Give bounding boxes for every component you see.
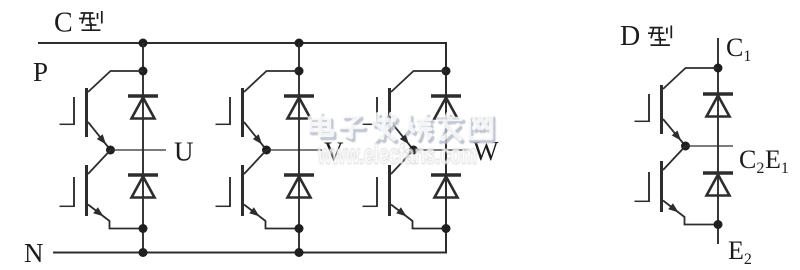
svg-text:www.elecfans.com: www.elecfans.com <box>317 139 477 170</box>
diode D2 <box>128 175 158 198</box>
junction Q1 collector <box>139 67 148 76</box>
junction V leg top (P rail) <box>295 39 304 48</box>
diode D1 <box>128 96 158 119</box>
wire node U stub <box>111 149 167 151</box>
node U junction <box>106 146 115 155</box>
junction Q5 collector <box>442 67 451 76</box>
wire node W stub <box>414 149 470 151</box>
svg-text:U: U <box>174 137 194 167</box>
wire node V stub <box>267 149 323 151</box>
diode D6 <box>431 175 461 198</box>
junction U leg top (P rail) <box>139 39 148 48</box>
junction U leg bottom (N rail) <box>139 248 148 257</box>
junction Q7 collector (C1) <box>714 64 723 73</box>
junction Q6 emitter <box>442 224 451 233</box>
wire P rail / leg W branch / N rail <box>38 43 446 253</box>
label 型 (C title hanzi) <box>79 11 102 30</box>
svg-text:D: D <box>620 21 640 52</box>
transistor Q4 (IGBT) <box>216 150 300 229</box>
transistor Q1 (IGBT) <box>60 71 144 150</box>
node C2E1 junction <box>681 142 690 151</box>
wire D module main branch C1-E2 <box>717 38 719 244</box>
diode D5 <box>431 96 461 119</box>
diode D3 <box>284 96 314 119</box>
wire node C2E1 stub <box>686 145 734 147</box>
transistor Q7 (IGBT) <box>635 68 719 146</box>
svg-text:N: N <box>24 238 44 268</box>
label 型 (D title hanzi) <box>648 26 671 46</box>
node V junction <box>262 146 271 155</box>
diode D7 <box>703 94 733 117</box>
wire W leg diode branch <box>445 43 447 253</box>
node W junction <box>409 146 418 155</box>
diode D4 <box>284 175 314 198</box>
svg-text:P: P <box>33 57 48 87</box>
wire U leg diode branch <box>142 43 144 253</box>
junction Q4 emitter <box>295 224 304 233</box>
transistor Q6 (IGBT) <box>363 150 447 229</box>
transistor Q2 (IGBT) <box>60 150 144 229</box>
wire V leg diode branch <box>298 43 300 253</box>
junction Q3 collector <box>295 67 304 76</box>
transistor Q3 (IGBT) <box>216 71 300 150</box>
junction V leg bottom (N rail) <box>295 248 304 257</box>
junction Q2 emitter <box>139 224 148 233</box>
watermark 电子发烧友网 <box>310 113 493 142</box>
svg-text:C: C <box>54 8 73 39</box>
transistor Q8 (IGBT) <box>635 146 719 225</box>
diode D8 <box>703 173 733 196</box>
transistor Q5 (IGBT) <box>363 71 447 150</box>
junction Q8 emitter (E2) <box>714 220 723 229</box>
